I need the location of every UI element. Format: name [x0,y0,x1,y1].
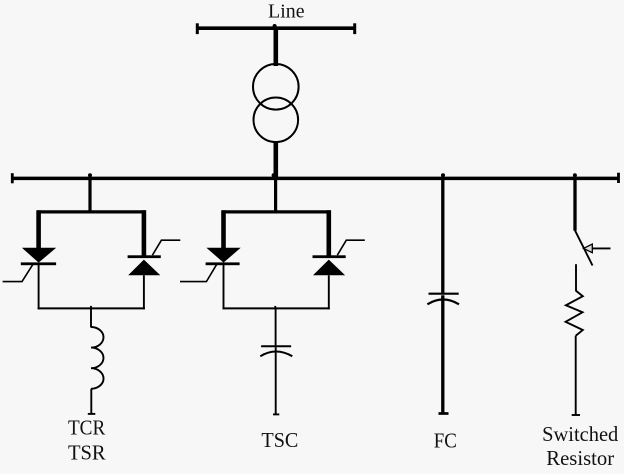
gate of thyristor V4 [337,240,365,255]
svg-text:TSC: TSC [261,428,298,452]
wire: SVC bus down to TCR bridge [88,178,91,214]
junction: FC tap on SVC bus [441,173,445,177]
switch S1 control arrow shaft [591,247,611,249]
thyristor V1 anode lead (TCR left) [36,210,41,248]
wire: SVC bus down to capacitor C2 (FC) [441,178,444,293]
svg-text:Line: Line [268,1,305,23]
junction: TCR bridge bottom center [90,306,92,309]
thyristor V3 (TSC left, pointing down) [206,248,241,265]
thyristor V1 (TCR left, pointing down) [21,248,56,265]
terminal tick FC [439,412,449,415]
transformer T1 primary winding [253,64,299,110]
terminal tick switched resistor [572,414,580,416]
wire: reactor to TCR terminal [90,389,92,414]
capacitor C2 curved plate (FC) [427,300,459,305]
thyristor V2 anode lead (TCR right) [142,210,147,256]
capacitor C2 top plate (FC) [429,293,459,295]
svg-text:Switched: Switched [542,422,619,446]
wire: transformer to SVC bus [273,141,278,178]
capacitor C1 top plate (TSC) [261,345,291,347]
gate of thyristor V2 [152,240,180,255]
wire: V4 to bridge bottom [328,275,330,309]
thyristor V2 (TCR right, pointing up) [128,255,161,275]
wire: TSC bridge bottom rail [223,307,330,309]
resistor R1 [566,291,583,336]
busbar SVC bus [12,173,618,184]
wire: bridge bottom to capacitor C1 [275,308,277,345]
wire: resistor R1 to terminal [575,336,577,415]
wire: bridge bottom to reactor [90,308,92,327]
wire: Line busbar to transformer [273,28,278,66]
svg-text:FC: FC [434,428,457,452]
wire: capacitor C1 to TSC terminal [275,347,277,414]
junction: TCR tap on SVC bus [88,173,92,177]
wire: V2 to bridge bottom [143,275,145,309]
thyristor V3 anode lead (TSC left) [221,210,226,248]
svg-text:TSR: TSR [68,440,106,464]
svg-text:Resistor: Resistor [546,446,614,470]
wire: SVC bus down to switch S1 [573,178,576,231]
thyristor V4 (TSC right, pointing up) [313,255,346,275]
wire: capacitor C2 to FC terminal [441,295,444,413]
terminal tick TSC [273,413,279,415]
junction on Line busbar [273,24,277,28]
wire: SVC bus down to TSC bridge [274,178,277,214]
junction: TSC bridge bottom center [274,306,276,309]
busbar Line [197,23,355,34]
wire: TCR bridge bottom rail [38,307,145,309]
capacitor C1 curved plate (TSC) [260,352,292,357]
switch S1 control arrowhead [584,244,593,253]
wire: TSC bridge top rail [222,210,331,213]
wire: TCR bridge top rail [37,210,146,213]
gate of thyristor V1 [3,264,33,281]
thyristor V4 anode lead (TSC right) [326,210,331,256]
junction: switched-resistor tap on SVC bus [573,173,577,177]
transformer T1 secondary winding [253,98,298,143]
inductor L1 (TCR reactor) [91,327,104,389]
terminal tick TCR [88,413,96,415]
junction: transformer tap on SVC bus [272,173,276,177]
wire: switch S1 to resistor R1 [575,264,577,291]
gate of thyristor V3 [180,264,217,281]
wire: V1 cathode to bridge bottom [38,265,40,309]
switch S1 blade [575,230,593,265]
svg-text:TCR: TCR [68,416,105,440]
wire: V3 cathode to bridge bottom [223,265,225,309]
